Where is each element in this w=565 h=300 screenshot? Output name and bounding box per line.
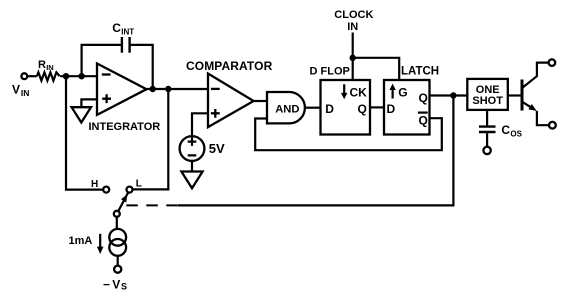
svg-text:5V: 5V bbox=[209, 141, 225, 156]
svg-text:C: C bbox=[112, 21, 121, 35]
svg-text:L: L bbox=[136, 178, 142, 189]
svg-text:LATCH: LATCH bbox=[401, 66, 439, 78]
svg-text:CLOCK: CLOCK bbox=[334, 9, 373, 21]
svg-text:ONE: ONE bbox=[476, 84, 500, 96]
svg-text:1mA: 1mA bbox=[69, 235, 93, 247]
svg-text:Q: Q bbox=[358, 102, 367, 116]
svg-text:D: D bbox=[387, 102, 396, 116]
svg-text:V: V bbox=[112, 277, 120, 291]
svg-text:−: − bbox=[103, 277, 110, 291]
svg-text:Q: Q bbox=[419, 91, 428, 105]
svg-text:D: D bbox=[325, 102, 334, 116]
svg-text:IN: IN bbox=[21, 88, 30, 98]
svg-text:R: R bbox=[38, 59, 46, 71]
svg-text:V: V bbox=[12, 83, 20, 97]
svg-text:H: H bbox=[91, 179, 98, 190]
svg-text:D FLOP: D FLOP bbox=[310, 66, 350, 78]
svg-text:G: G bbox=[398, 85, 407, 99]
svg-text:IN: IN bbox=[46, 63, 54, 72]
svg-text:SHOT: SHOT bbox=[472, 95, 503, 107]
svg-text:OS: OS bbox=[510, 130, 522, 139]
svg-text:Q: Q bbox=[419, 113, 428, 127]
svg-text:COMPARATOR: COMPARATOR bbox=[186, 59, 273, 73]
svg-text:AND: AND bbox=[275, 103, 299, 115]
svg-text:INTEGRATOR: INTEGRATOR bbox=[89, 121, 161, 133]
svg-text:C: C bbox=[501, 123, 510, 137]
svg-text:CK: CK bbox=[350, 85, 368, 99]
svg-text:INT: INT bbox=[121, 27, 134, 36]
svg-text:S: S bbox=[121, 282, 127, 292]
svg-text:IN: IN bbox=[347, 21, 358, 33]
